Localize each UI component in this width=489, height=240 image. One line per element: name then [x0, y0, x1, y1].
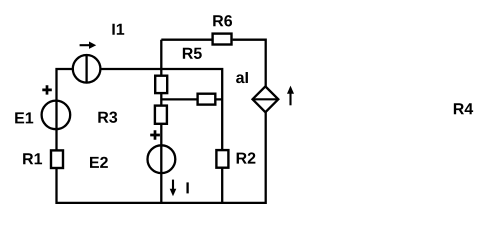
- label I: [186, 182, 188, 193]
- arrow of current I: [170, 180, 177, 197]
- label R2: [237, 152, 256, 163]
- label R3: [98, 112, 117, 123]
- label R5: [183, 48, 202, 59]
- wire: left corner, left branch, bottom rail, right outer branch, top-right segment: [57, 40, 266, 203]
- label R1: [23, 153, 42, 164]
- wire: top-left segment: [161, 39, 211, 41]
- wire: junction branch toward horizontal resistor: [161, 98, 222, 100]
- label R4: [454, 103, 473, 114]
- resistor R4 (horizontal box): [198, 94, 216, 105]
- label I1: [112, 24, 124, 35]
- current source I1: [73, 55, 101, 83]
- label E2: [90, 157, 108, 168]
- resistor R3: [155, 106, 167, 124]
- arrow of I1: [80, 42, 97, 49]
- dependent current source aI (diamond): [253, 86, 279, 112]
- plus sign of E1: [42, 85, 52, 94]
- voltage source E1: [42, 101, 71, 130]
- wire: main horizontal rail and inner right branch down: [100, 69, 222, 203]
- label R6: [213, 15, 232, 26]
- resistor R6: [213, 34, 232, 45]
- resistor R2: [216, 150, 228, 168]
- arrow of aI: [287, 86, 294, 106]
- plus sign of E2: [150, 130, 160, 140]
- resistor R5: [155, 76, 167, 93]
- label aI: [236, 72, 248, 83]
- wire: middle vertical branch: [160, 40, 162, 203]
- label E1: [15, 112, 33, 123]
- voltage source E2: [148, 145, 176, 173]
- resistor R1: [51, 150, 63, 168]
